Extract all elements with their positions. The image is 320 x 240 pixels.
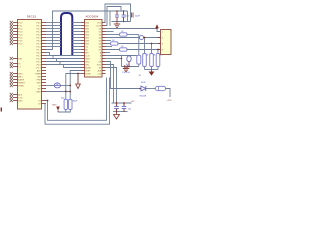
svg-text:DB0: DB0 xyxy=(85,22,89,24)
junction dot row 58.5 xyxy=(121,58,123,60)
wire row 1 with series resistor xyxy=(106,37,140,39)
bottom cluster feed B xyxy=(106,65,114,104)
capacitor C10 bottom cluster xyxy=(123,103,125,107)
svg-text:D1: D1 xyxy=(99,31,101,33)
diode D1 xyxy=(141,86,146,91)
svg-text:DB4: DB4 xyxy=(85,34,89,36)
svg-text:EA/VP: EA/VP xyxy=(18,78,25,81)
wire diode to cap xyxy=(146,88,156,90)
ground top cluster xyxy=(116,22,118,24)
wire U2 pin to left-down col B xyxy=(66,74,81,100)
wire circle to col A xyxy=(60,85,70,87)
right vertical rail join xyxy=(127,11,129,22)
mid cluster top rail xyxy=(106,55,137,57)
wire ALE up over the top to right rail xyxy=(46,11,128,50)
svg-text:INTR: INTR xyxy=(85,58,90,60)
svg-text:TXD: TXD xyxy=(18,97,23,99)
wires bus right leg to U2 xyxy=(72,22,81,24)
connector J1 pins xyxy=(158,31,161,33)
resistor R1 xyxy=(143,54,147,67)
svg-text:D3: D3 xyxy=(99,37,101,39)
red cap ticks on mid rail xyxy=(124,65,126,68)
wire stub pin row 40.5 xyxy=(106,40,112,42)
open circle on wire 1 xyxy=(140,36,144,40)
wires U1 P0 to bus left leg xyxy=(46,22,61,24)
svg-text:C10 104: C10 104 xyxy=(122,72,130,74)
U1 left pins P1/control with no-connect X marks xyxy=(13,22,18,24)
caps bottom rail xyxy=(58,110,66,113)
staircase wires U1 P2 to U2 lower pins xyxy=(46,53,81,56)
left edge red mark xyxy=(1,108,2,112)
junction dot diode wire xyxy=(139,88,141,90)
mid cluster left vert xyxy=(121,56,123,67)
wire U2 to diode branch xyxy=(106,62,142,89)
svg-text:4148: 4148 xyxy=(141,82,146,84)
svg-text:D7: D7 xyxy=(99,49,101,51)
svg-text:+12V: +12V xyxy=(167,100,173,102)
wire U2 pin to left-down col A xyxy=(70,71,81,100)
series resistor Ra xyxy=(120,33,128,36)
svg-text:PSEN: PSEN xyxy=(18,85,24,87)
vertical drop to R2 xyxy=(151,44,153,54)
junction dot mid rail xyxy=(128,66,130,68)
capacitor C3 between rails xyxy=(116,10,118,14)
wire stub pin row 46.5 xyxy=(106,46,113,48)
ground bottom cluster triangle xyxy=(116,112,118,115)
red branch wire with power arrow below U2 xyxy=(74,73,81,75)
svg-text:DB7: DB7 xyxy=(85,43,89,45)
svg-text:DB5: DB5 xyxy=(85,37,89,39)
wire U1 T2 to circle component xyxy=(46,85,54,87)
svg-text:10u: 10u xyxy=(128,109,131,111)
wire row Ra xyxy=(106,34,120,36)
op-amp U1 body (8051 MCU) xyxy=(18,20,42,110)
connector J1 body xyxy=(161,30,172,55)
svg-text:10u: 10u xyxy=(126,64,129,66)
svg-text:PSE: PSE xyxy=(37,79,42,81)
bottom cluster bottom rail xyxy=(113,111,128,113)
U2 left pins xyxy=(81,22,85,24)
svg-text:DB6: DB6 xyxy=(85,40,89,42)
capacitor C6 oval electrolytic xyxy=(128,55,130,58)
capacitor C2 xyxy=(69,99,72,109)
bus arch between U1 and U2 xyxy=(61,13,72,55)
resistor R3 xyxy=(156,54,160,67)
series resistor Rb xyxy=(111,42,119,45)
wire stub pin row 31.5 xyxy=(106,31,114,33)
svg-text:IN4148: IN4148 xyxy=(140,96,147,98)
wire U2 top pin up-over 1 xyxy=(105,4,131,23)
svg-text:EOC: EOC xyxy=(97,64,102,66)
junction dots bottom cluster xyxy=(116,102,118,104)
svg-text:VREF: VREF xyxy=(85,70,91,72)
svg-text:GND: GND xyxy=(52,104,57,106)
U1 right pins P0/P2/X1/X2 xyxy=(42,22,47,24)
mid cluster bottom rail xyxy=(122,66,139,68)
junction dot circle wire xyxy=(69,85,71,87)
svg-text:1K: 1K xyxy=(153,55,156,57)
svg-text:DGND: DGND xyxy=(85,73,91,75)
junction dots pullups xyxy=(144,37,146,39)
long bottom wire 2 xyxy=(45,78,110,125)
svg-text:WR: WR xyxy=(37,76,41,78)
svg-text:CLKI: CLKI xyxy=(85,55,90,57)
svg-text:VIN-: VIN- xyxy=(85,64,89,66)
svg-text:VPD: VPD xyxy=(37,82,42,84)
resistor Rd vertical xyxy=(137,55,141,64)
svg-text:AGND: AGND xyxy=(85,66,91,69)
wire row 2 xyxy=(106,43,161,45)
svg-text:104: 104 xyxy=(125,15,129,17)
svg-text:D6: D6 xyxy=(99,46,101,48)
wire across y91.5 below U1 xyxy=(46,91,70,93)
gnd arrow left of caps xyxy=(56,107,60,111)
capacitor C4 between rails xyxy=(123,10,125,14)
bottom cluster feed C xyxy=(106,68,117,104)
long bottom wire 1 xyxy=(46,78,107,121)
capacitor C1 xyxy=(64,99,67,109)
svg-text:DB3: DB3 xyxy=(85,31,89,33)
svg-text:1K: 1K xyxy=(139,75,142,77)
svg-text:ADC0804: ADC0804 xyxy=(86,15,99,19)
svg-text:D2: D2 xyxy=(99,34,101,36)
svg-text:VCC: VCC xyxy=(97,22,102,24)
op-amp U2 body (ADC0804) xyxy=(85,20,103,78)
ground mid cluster xyxy=(125,67,127,69)
junction dots on y91.5 xyxy=(65,91,67,93)
svg-text:1K: 1K xyxy=(146,55,149,57)
wire VCC row to connector xyxy=(106,28,158,30)
junction dot 47.5,100.5 xyxy=(47,100,49,102)
svg-text:89C51: 89C51 xyxy=(27,15,37,19)
vcc arrow up at connector xyxy=(157,29,161,32)
svg-text:D4: D4 xyxy=(99,40,101,42)
capacitor C8 horizontal xyxy=(156,86,166,90)
wire U2 top pin up-over 2 xyxy=(106,7,122,26)
connector wire 1 xyxy=(144,37,161,39)
junction dot at 78,73.5 xyxy=(77,73,79,75)
wire U2 pin row 58.5 to cluster xyxy=(106,58,122,60)
svg-text:ALE: ALE xyxy=(18,93,22,96)
circle component LS1 xyxy=(54,83,60,88)
svg-text:DB2: DB2 xyxy=(85,28,89,30)
svg-text:10uF: 10uF xyxy=(135,15,141,17)
svg-text:RESET: RESET xyxy=(18,82,25,84)
svg-text:+5V: +5V xyxy=(131,101,135,103)
svg-text:D5: D5 xyxy=(99,43,101,45)
wire cap to corner xyxy=(166,89,171,98)
bottom cluster top rail xyxy=(112,102,132,104)
gnd stem resistors xyxy=(151,70,153,72)
svg-text:PSEN: PSEN xyxy=(35,73,41,75)
vertical drop to R3 xyxy=(157,50,159,54)
svg-text:CLKR: CLKR xyxy=(96,25,102,27)
left dangling vertical xyxy=(109,11,111,26)
bottom rail of top cluster xyxy=(112,21,131,23)
svg-text:DB1: DB1 xyxy=(85,25,89,27)
vertical drop to R1 xyxy=(144,38,146,54)
resistor R2 xyxy=(150,54,154,67)
svg-text:D0: D0 xyxy=(99,28,101,30)
series resistor Rc xyxy=(120,48,128,51)
wire row 3 xyxy=(106,49,161,51)
ground resistors xyxy=(149,72,155,76)
svg-text:RXD: RXD xyxy=(18,100,23,102)
U2 right pins xyxy=(102,22,106,24)
resistor bottom rail xyxy=(144,67,146,70)
capacitor C5 red polarized xyxy=(131,13,133,18)
wire stub pin row 52.5 xyxy=(106,52,111,54)
power arrow down below U2 xyxy=(77,74,79,85)
svg-text:ALE: ALE xyxy=(37,69,41,72)
capacitor C9 bottom cluster xyxy=(116,103,118,107)
svg-text:30pF: 30pF xyxy=(73,101,78,103)
svg-text:GND: GND xyxy=(36,91,41,93)
